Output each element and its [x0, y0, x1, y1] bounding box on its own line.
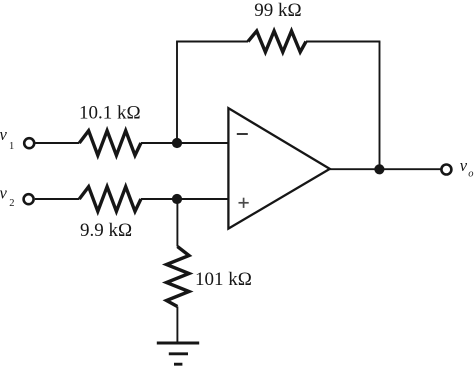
node B junction dot [172, 194, 182, 204]
wire left feedback vertical [176, 42, 178, 144]
wire right feedback vertical [379, 42, 381, 170]
wire [35, 142, 79, 144]
label vo [460, 156, 474, 180]
wire top right [306, 41, 380, 43]
svg-text:o: o [468, 169, 473, 180]
op-amp non-inverting pin label (plus) [239, 198, 249, 208]
wire [141, 142, 229, 144]
wire [141, 198, 229, 200]
wire op-amp output [330, 168, 441, 170]
wire to ground [176, 307, 178, 344]
terminal vo [441, 165, 451, 175]
svg-text:101 kΩ: 101 kΩ [195, 269, 252, 290]
resistor R1 10.1 k [79, 131, 141, 156]
label v2 [0, 184, 15, 210]
resistor R4 101 k [167, 247, 190, 307]
op-amp U1 [228, 108, 329, 228]
svg-text:v: v [460, 156, 468, 175]
svg-text:1: 1 [9, 141, 14, 152]
wire top left [176, 41, 248, 43]
terminal v2 [24, 194, 34, 204]
ground [157, 343, 199, 364]
node A junction dot [172, 138, 182, 148]
label v1 [0, 125, 14, 152]
op-amp inverting pin label (minus) [237, 133, 248, 135]
svg-text:10.1 kΩ: 10.1 kΩ [79, 102, 141, 123]
svg-text:2: 2 [9, 198, 14, 209]
node C junction dot (output) [374, 164, 384, 174]
svg-text:99 kΩ: 99 kΩ [254, 0, 301, 21]
wire down from node B [176, 199, 178, 247]
svg-text:v: v [0, 125, 8, 144]
wire [35, 198, 80, 200]
svg-text:v: v [0, 184, 8, 203]
terminal v1 [24, 138, 34, 148]
resistor R3 99 k (feedback) [248, 31, 306, 52]
svg-text:9.9 kΩ: 9.9 kΩ [80, 220, 132, 241]
resistor R2 9.9 k [79, 187, 141, 212]
